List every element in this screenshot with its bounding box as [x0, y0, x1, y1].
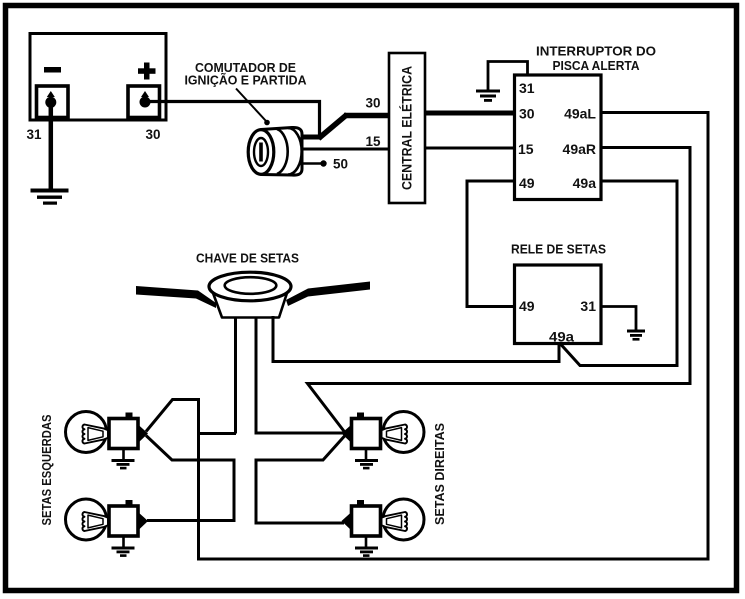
svg-text:RELE DE SETAS: RELE DE SETAS: [511, 242, 606, 257]
svg-text:30: 30: [366, 96, 381, 111]
wire 15 ignition switch to central eletrica: [302, 148, 389, 151]
lamp setas esquerdas front: [66, 412, 149, 470]
svg-text:SETAS ESQUERDAS: SETAS ESQUERDAS: [39, 414, 54, 525]
wire 30 central eletrica to interruptor: [425, 111, 515, 116]
ground (relay): [627, 330, 645, 341]
svg-text:49: 49: [519, 175, 535, 191]
svg-text:49a: 49a: [573, 175, 597, 191]
wire chave to relay 49a: [273, 316, 559, 362]
ignition switch (comutador): [248, 127, 302, 175]
svg-text:SETAS DIREITAS: SETAS DIREITAS: [432, 423, 447, 525]
svg-text:49: 49: [519, 298, 535, 314]
rele de setas box K1: [515, 265, 602, 344]
svg-text:31: 31: [27, 127, 42, 142]
lamp setas direitas rear: [342, 499, 425, 557]
wire chave left output down: [234, 317, 237, 434]
interruptor do pisca alerta box U1: [515, 75, 602, 200]
svg-text:31: 31: [519, 80, 535, 96]
svg-text:15: 15: [518, 141, 534, 157]
wire chave right output to right top lamp: [256, 317, 344, 433]
wire 49aR: interruptor to right lamps: [308, 148, 691, 433]
pointer line to ignition switch: [236, 89, 266, 122]
wire right lamps link: [256, 436, 345, 524]
wire battery negative to ground: [49, 103, 54, 189]
wire left lamps link: [146, 436, 234, 521]
terminal 31: [37, 86, 69, 118]
wire relay 31 to ground: [601, 307, 636, 331]
wire battery positive to ignition switch: [145, 102, 320, 137]
svg-text:15: 15: [366, 134, 381, 149]
collar body: [213, 293, 287, 318]
wire interruptor pin31 to ground: [488, 62, 528, 91]
svg-text:49a: 49a: [549, 329, 574, 345]
terminal 50 stub: [302, 162, 321, 165]
svg-text:50: 50: [333, 157, 348, 172]
svg-text:PISCA ALERTA: PISCA ALERTA: [553, 58, 641, 73]
svg-text:30: 30: [519, 105, 535, 121]
terminal 30: [128, 86, 160, 118]
svg-text:49aR: 49aR: [563, 141, 596, 157]
wire 30 thick to central eletrica: [344, 113, 389, 119]
svg-text:INTERRUPTOR DO: INTERRUPTOR DO: [536, 44, 656, 59]
chave de setas (turn signal switch): [136, 272, 370, 317]
terminal dot 31: [47, 91, 55, 97]
right lever: [286, 282, 370, 307]
svg-text:30: 30: [146, 127, 161, 142]
svg-text:IGNIÇÃO E PARTIDA: IGNIÇÃO E PARTIDA: [185, 73, 308, 88]
svg-text:CENTRAL ELÉTRICA: CENTRAL ELÉTRICA: [400, 66, 415, 190]
plus sign: [138, 68, 156, 74]
wire 49a: interruptor to relay: [561, 181, 678, 366]
svg-text:49aL: 49aL: [564, 105, 596, 121]
minus sign: [44, 67, 61, 73]
wire ignition switch to 30 node (thick): [302, 135, 322, 140]
wire branch riser to chave left output: [199, 432, 237, 435]
ring inner: [225, 277, 277, 294]
wire 49aL: interruptor to left lamps: [146, 113, 708, 560]
wire 15 central eletrica to interruptor: [425, 147, 515, 150]
lamp setas direitas front: [342, 412, 425, 470]
ground (battery): [31, 189, 69, 205]
ground (interruptor): [476, 90, 500, 102]
battery B1: [30, 34, 166, 121]
svg-text:31: 31: [580, 298, 596, 314]
lamp setas esquerdas rear: [66, 499, 149, 557]
wire interruptor 49 to relay 49: [467, 181, 515, 307]
terminal dot 30: [141, 91, 149, 97]
left lever: [136, 286, 216, 308]
central eletrica box: [389, 53, 425, 203]
svg-text:CHAVE DE SETAS: CHAVE DE SETAS: [196, 251, 299, 266]
ring outer: [209, 272, 291, 301]
